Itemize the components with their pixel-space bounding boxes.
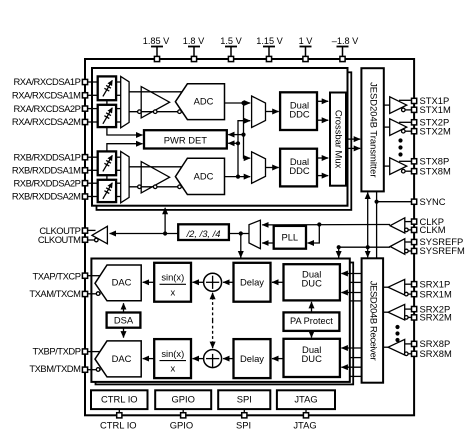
svg-text:1.15 V: 1.15 V: [256, 36, 283, 46]
svg-text:SRX8M: SRX8M: [420, 348, 452, 359]
svg-text:SRX1M: SRX1M: [420, 288, 452, 299]
svg-text:x: x: [170, 363, 175, 374]
svg-text:RXA/RXCDSA1M: RXA/RXCDSA1M: [12, 90, 81, 101]
svg-text:GPIO: GPIO: [170, 419, 193, 430]
svg-text:Delay: Delay: [240, 277, 264, 288]
svg-text:DUC: DUC: [302, 353, 323, 364]
svg-text:SPI: SPI: [236, 419, 251, 430]
svg-text:GPIO: GPIO: [171, 394, 194, 405]
svg-text:SYNC: SYNC: [420, 196, 446, 207]
svg-text:sin(x): sin(x): [161, 348, 184, 359]
svg-text:RXB/RXDDSA2P: RXB/RXDDSA2P: [13, 177, 80, 188]
svg-text:Crossbar Mux: Crossbar Mux: [334, 110, 345, 169]
svg-text:ADC: ADC: [194, 96, 214, 107]
svg-text:DDC: DDC: [289, 109, 310, 120]
svg-text:TXAM/TXCM: TXAM/TXCM: [29, 288, 81, 299]
svg-text:JESD204B Receiver: JESD204B Receiver: [368, 281, 379, 361]
svg-text:1.5 V: 1.5 V: [220, 36, 242, 46]
svg-text:CLKM: CLKM: [420, 224, 446, 235]
svg-text:STX1M: STX1M: [420, 104, 451, 115]
svg-text:PLL: PLL: [281, 232, 298, 243]
svg-text:1.8 V: 1.8 V: [183, 36, 205, 46]
svg-text:STX8M: STX8M: [420, 165, 451, 176]
svg-text:–1.8 V: –1.8 V: [332, 36, 359, 46]
svg-text:RXB/RXDDSA2M: RXB/RXDDSA2M: [12, 191, 81, 202]
svg-text:x: x: [170, 286, 175, 297]
svg-text:DUC: DUC: [302, 278, 323, 289]
svg-text:DDC: DDC: [289, 165, 310, 176]
svg-text:1 V: 1 V: [299, 36, 314, 46]
svg-text:sin(x): sin(x): [161, 272, 184, 283]
svg-text:1.85 V: 1.85 V: [143, 36, 170, 46]
svg-text:JESD204B Transmitter: JESD204B Transmitter: [368, 82, 379, 177]
svg-text:ADC: ADC: [194, 171, 214, 182]
svg-text:RXB/RXDDSA1P: RXB/RXDDSA1P: [13, 151, 80, 162]
svg-text:DAC: DAC: [112, 353, 132, 364]
svg-text:DAC: DAC: [112, 277, 132, 288]
svg-text:CLKOUTM: CLKOUTM: [38, 234, 81, 245]
svg-text:/2, /3, /4: /2, /3, /4: [186, 228, 221, 239]
svg-text:SPI: SPI: [237, 394, 252, 405]
svg-text:RXB/RXDDSA1M: RXB/RXDDSA1M: [12, 165, 81, 176]
svg-text:PWR DET: PWR DET: [164, 134, 208, 145]
svg-text:PA Protect: PA Protect: [290, 316, 333, 326]
svg-text:SRX2M: SRX2M: [420, 312, 452, 323]
svg-text:DSA: DSA: [114, 314, 134, 325]
svg-text:TXAP/TXCP: TXAP/TXCP: [32, 271, 80, 282]
svg-text:RXA/RXCDSA1P: RXA/RXCDSA1P: [13, 76, 80, 87]
svg-text:STX2M: STX2M: [420, 125, 451, 136]
svg-text:CTRL IO: CTRL IO: [100, 419, 137, 430]
svg-text:Delay: Delay: [240, 353, 264, 364]
svg-text:TXBP/TXDP: TXBP/TXDP: [32, 346, 80, 357]
svg-text:RXA/RXCDSA2M: RXA/RXCDSA2M: [12, 116, 81, 127]
svg-text:JTAG: JTAG: [294, 394, 317, 405]
svg-text:RXA/RXCDSA2P: RXA/RXCDSA2P: [13, 103, 80, 114]
svg-text:JTAG: JTAG: [293, 419, 316, 430]
svg-text:SYSREFM: SYSREFM: [420, 245, 466, 256]
svg-text:CTRL IO: CTRL IO: [101, 394, 138, 405]
svg-text:TXBM/TXDM: TXBM/TXDM: [29, 363, 81, 374]
